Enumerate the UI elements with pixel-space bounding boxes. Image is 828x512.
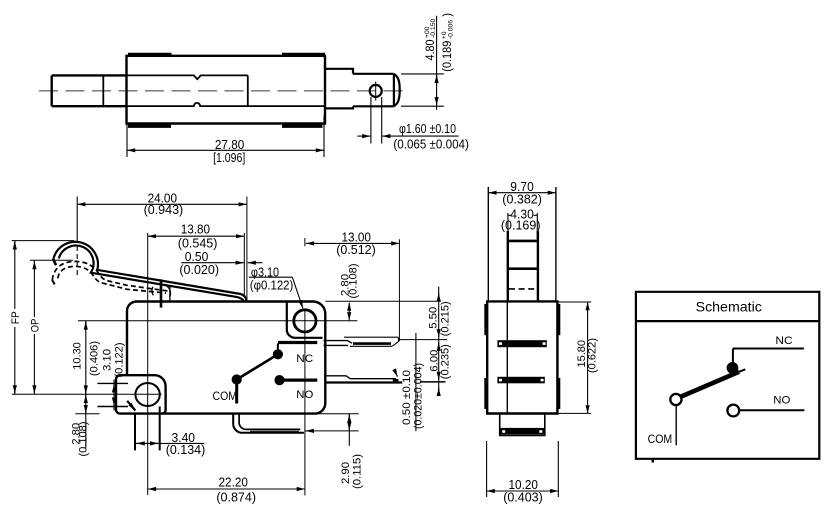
dimension 15.80 extension lines	[557, 301, 591, 303]
dimension OP line	[33, 260, 35, 317]
svg-text:(0.215): (0.215)	[440, 301, 452, 336]
extension line NO blade bottom	[420, 381, 446, 383]
svg-text:-0.006: -0.006	[447, 20, 454, 39]
dimension 5.50 6.00 line	[438, 287, 440, 396]
svg-text:(0.169): (0.169)	[501, 219, 541, 233]
lever solid tip cap	[53, 259, 56, 266]
contact NC stem	[277, 344, 279, 351]
schematic NC wire	[733, 348, 804, 350]
COM terminal tab mid line	[250, 430, 299, 432]
side view upper column lines	[487, 187, 489, 301]
top view terminal rounded end	[394, 74, 400, 107]
svg-text:2.90: 2.90	[340, 462, 352, 484]
contact NC dot	[273, 350, 282, 359]
dimension 3.40 line	[135, 442, 204, 444]
svg-text:(0.545): (0.545)	[178, 237, 218, 251]
dimension 2.80 line top right	[348, 303, 350, 321]
dimension 27.80 extension lines	[126, 116, 128, 158]
dimension 13.00 right extension	[398, 239, 400, 341]
dimension 24.00 left extension / roller centerline	[76, 197, 78, 243]
contact NC bar	[278, 341, 317, 344]
NC terminal blade top line	[344, 336, 398, 338]
front view left hole vertical centerline long	[147, 233, 149, 495]
svg-text:(0.943): (0.943)	[144, 203, 184, 217]
dimension 27.80 line	[127, 149, 324, 151]
lever pivot right arc	[167, 286, 171, 297]
svg-text:FP: FP	[10, 311, 22, 324]
svg-text:22.20: 22.20	[219, 476, 248, 490]
side view lever column	[507, 231, 509, 301]
COM terminal tab inner	[239, 414, 300, 430]
svg-text:φ3.10: φ3.10	[251, 265, 279, 279]
dimension 4.80 line	[436, 16, 438, 110]
front view bottom-left mounting hole	[135, 383, 159, 406]
svg-text:(0.115): (0.115)	[352, 454, 364, 489]
svg-text:(0.020): (0.020)	[179, 263, 219, 277]
dimension 4.80 extension lines	[401, 73, 444, 75]
dimension text 4.80 with tolerance	[424, 19, 437, 61]
side view body outline	[487, 301, 557, 413]
contact NO dot	[275, 376, 284, 385]
dimension 3.10 line	[113, 380, 115, 411]
svg-text:(0.512): (0.512)	[336, 243, 376, 257]
svg-text:10.30: 10.30	[72, 342, 84, 370]
svg-text:(0.122): (0.122)	[113, 343, 125, 378]
svg-text:0.50 ±0.10: 0.50 ±0.10	[401, 370, 413, 425]
dimension 24.00 right extension	[246, 197, 248, 303]
dimension 10.20 extension lines	[486, 441, 488, 497]
top view terminal hole vertical crosshair	[375, 82, 377, 101]
svg-text:(0.403): (0.403)	[503, 491, 543, 505]
front view hole horizontal centerline	[78, 320, 357, 322]
NO terminal blade bottom thick	[325, 381, 402, 383]
dimension 4.30 extension lines	[507, 213, 509, 239]
svg-text:φ1.60 ±0.10: φ1.60 ±0.10	[399, 122, 456, 136]
dimension phi1.60 arrows	[357, 135, 370, 137]
NO terminal blade tip	[393, 379, 399, 382]
side view NC terminal bar	[497, 340, 546, 347]
svg-text:COM: COM	[213, 391, 238, 403]
top view inner top line with notch	[127, 75, 248, 79]
dimension 0.50 pm 0.10 arrow	[396, 374, 397, 377]
schematic tick mark	[652, 459, 655, 463]
svg-text:OP: OP	[29, 319, 41, 333]
front view top-right mounting hole phi3.10	[294, 310, 316, 332]
side view left tabs	[484, 304, 487, 335]
dimension 3.40 extension lines	[134, 414, 136, 451]
top view plunger division line	[102, 75, 104, 106]
extension line body top right	[326, 300, 441, 302]
dimension 0.50 line	[181, 262, 244, 264]
svg-text:(0.235): (0.235)	[440, 344, 452, 379]
side view lever dashed line	[509, 288, 537, 290]
top view switch body	[127, 56, 326, 124]
contact COM stem	[235, 380, 238, 404]
svg-text:(0.108): (0.108)	[348, 264, 360, 299]
schematic NC stem	[732, 349, 734, 363]
NC terminal blade base	[324, 341, 353, 346]
svg-text:NO: NO	[773, 395, 790, 407]
top view body top tabs	[128, 53, 172, 56]
svg-text:): )	[442, 13, 454, 17]
top view right step	[325, 69, 353, 109]
svg-text:(φ0.122): (φ0.122)	[250, 278, 293, 292]
top view centerline	[39, 90, 408, 92]
svg-text:NC: NC	[775, 335, 792, 347]
contact COM dot	[232, 375, 241, 384]
top view plunger	[52, 75, 127, 106]
schematic NC contact dot	[727, 363, 738, 374]
schematic lever arm	[680, 372, 740, 398]
svg-text:-0.150: -0.150	[430, 19, 437, 38]
svg-text:NC: NC	[296, 353, 313, 365]
leader phi3.10 arrow	[292, 277, 303, 308]
NO terminal blade base	[325, 376, 396, 379]
dimension FP extension line	[12, 240, 74, 242]
side view inner vertical line	[506, 301, 508, 413]
schematic COM contact circle	[670, 394, 681, 405]
svg-text:(0.134): (0.134)	[166, 443, 206, 457]
lever pressed tip cap	[52, 280, 55, 285]
side view COM terminal bar	[501, 428, 545, 435]
svg-text:(0.020±0.004): (0.020±0.004)	[413, 363, 425, 429]
dimension 3.10 extension lines	[97, 382, 128, 384]
svg-text:(0.406): (0.406)	[89, 341, 101, 376]
svg-text:(0.189: (0.189	[442, 41, 454, 72]
svg-text:Schematic: Schematic	[696, 299, 763, 314]
front view bottom-left mounting lug	[116, 375, 166, 413]
front view top-right mounting lug	[287, 302, 323, 338]
top view terminal blade	[353, 74, 394, 107]
front view datum line at left hole center	[12, 393, 162, 395]
svg-text:COM: COM	[648, 434, 673, 446]
lever solid outer curve	[53, 242, 246, 302]
schematic NO wire	[739, 409, 804, 411]
dimension 2.90 line	[348, 414, 350, 446]
dimension 9.70 line	[488, 192, 556, 194]
dimension OP extension line	[30, 259, 73, 261]
svg-text:(0.065 ±0.004): (0.065 ±0.004)	[393, 137, 469, 151]
svg-text:[1.096]: [1.096]	[213, 151, 245, 165]
dimension 2.90 extension lines	[317, 413, 359, 415]
svg-text:13.80: 13.80	[181, 223, 210, 237]
lever pivot post	[160, 279, 163, 307]
contact lever arm	[237, 354, 278, 379]
lever pivot pin line	[169, 286, 171, 301]
contact NO bar	[283, 379, 317, 382]
dimension 13.80 right extension	[243, 233, 245, 296]
schematic COM wire	[675, 405, 677, 445]
side view lever rung 2	[508, 267, 538, 270]
NC terminal blade tip	[392, 337, 398, 346]
side view lever rung 1	[508, 240, 538, 243]
dimension 10.20 line	[487, 490, 559, 492]
leader phi3.10 underline	[249, 276, 292, 278]
top view inner vertical line	[247, 75, 249, 106]
front view body outline	[127, 302, 325, 414]
lever pivot left arc	[152, 287, 153, 296]
dimension text (0.189) with tolerance	[441, 13, 454, 72]
svg-text:(0.382): (0.382)	[502, 193, 542, 207]
side view right tabs	[557, 304, 560, 335]
dimension 13.80 line	[148, 235, 245, 237]
dimension 24.00 line	[77, 203, 247, 205]
dimension 13.00 line	[306, 242, 400, 244]
side view NO terminal bar	[497, 377, 544, 384]
extension line body bottom left	[75, 413, 99, 415]
svg-text:NO: NO	[296, 389, 313, 401]
NC terminal blade bottom line	[350, 345, 392, 347]
dimension 10.30 and 2.80 line	[85, 321, 87, 449]
svg-text:(0.108): (0.108)	[78, 422, 90, 457]
dimension 22.20 line	[148, 488, 305, 490]
svg-text:(0.874): (0.874)	[216, 491, 256, 505]
schematic title separator	[636, 320, 819, 322]
extension line NC blade top	[398, 339, 447, 341]
lever pressed inner curve dashed	[58, 266, 166, 293]
lever solid inner curve	[59, 246, 244, 302]
side view COM terminal outline	[500, 414, 545, 436]
svg-text:3.10: 3.10	[102, 349, 114, 371]
leader arrow at lug corner	[127, 401, 135, 411]
lever pressed outer curve dashed	[52, 261, 170, 291]
dimension 0.50 pm 0.10 line	[415, 333, 417, 431]
svg-text:(0.622): (0.622)	[587, 338, 599, 373]
svg-text:27.80: 27.80	[215, 138, 244, 152]
dimension FP line	[14, 241, 16, 309]
front view hole vertical centerline long	[304, 238, 306, 246]
top view body bottom tabs	[128, 124, 171, 127]
top view terminal hole	[370, 85, 382, 97]
COM terminal tab outer	[233, 414, 304, 433]
schematic NO contact circle	[727, 405, 739, 417]
dimension phi1.60 extension lines	[370, 97, 372, 144]
svg-text:5.50: 5.50	[428, 307, 440, 329]
dimension 15.80 line	[587, 302, 589, 413]
svg-text:4.80: 4.80	[425, 40, 437, 61]
schematic box	[636, 292, 819, 459]
top view inner bottom line with bump	[127, 103, 326, 106]
NC terminal blade thick edge	[353, 342, 391, 345]
